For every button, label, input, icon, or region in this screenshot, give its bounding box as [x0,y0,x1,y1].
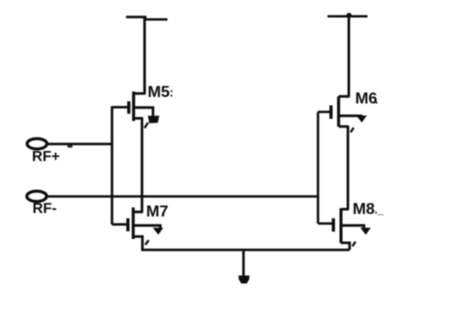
wire RF+ to gate bus [48,143,114,145]
transistor M8 [318,208,364,250]
speck on RF+ wire [68,145,73,148]
svg-text:RF-: RF- [33,201,57,217]
faint label artifacts [170,86,385,217]
supply rail left (upper tick) [126,16,147,18]
bulk arrow M7 [153,228,164,235]
transistor M6 [318,96,361,132]
ground [239,276,250,284]
wire M6 source to M8 drain [347,126,350,210]
svg-text:M5: M5 [148,84,170,101]
svg-text:M7: M7 [146,204,168,221]
wire RF- long horizontal [47,195,319,197]
wire right gate bus vertical [317,112,319,224]
bulk arrow M5 [148,116,160,124]
bulk arrow M8 [360,228,371,235]
wire M6 drain to rail [347,15,350,96]
supply rail right [328,15,368,17]
port RF- [27,191,47,201]
transistor M5 [112,92,153,129]
wire left gate bus vertical [111,106,114,224]
wire ground stem [242,250,245,278]
wire tail (common source) [141,249,349,252]
node junction dot at right rail [346,13,351,18]
wire M5 drain to rail [143,18,146,94]
svg-text::: : [170,86,174,100]
supply rail left (lower tick) [144,18,168,20]
port RF+ [27,139,47,149]
transistor M7 [112,208,160,250]
svg-text:.: . [375,93,378,107]
wire M5 source to M7 drain [141,117,144,212]
svg-text:RF+: RF+ [32,149,60,165]
svg-text:._: ._ [375,205,385,217]
svg-text:M8: M8 [353,201,375,218]
bulk arrow M6 [356,116,367,123]
